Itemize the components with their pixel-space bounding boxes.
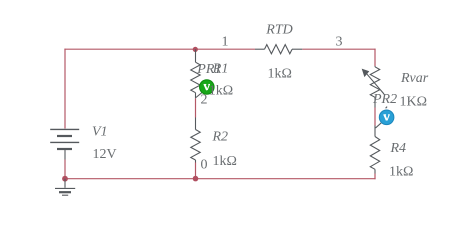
svg-text:RTD: RTD [265,23,292,38]
svg-text:3: 3 [336,35,343,50]
svg-text:R1: R1 [212,62,229,77]
svg-text:2: 2 [201,93,208,108]
svg-text:1kΩ: 1kΩ [209,84,233,99]
svg-text:1kΩ: 1kΩ [268,67,292,82]
svg-text:PR2: PR2 [372,92,397,107]
svg-text:1kΩ: 1kΩ [213,154,237,169]
svg-text:1: 1 [222,35,229,50]
svg-text:V1: V1 [92,124,108,139]
svg-text:1KΩ: 1KΩ [400,95,428,110]
svg-text:0: 0 [201,158,208,173]
svg-text:R4: R4 [390,141,407,156]
svg-text:R2: R2 [212,130,229,145]
svg-text:Rvar: Rvar [400,71,429,86]
svg-text:12V: 12V [93,147,117,162]
svg-text:1kΩ: 1kΩ [389,165,413,180]
